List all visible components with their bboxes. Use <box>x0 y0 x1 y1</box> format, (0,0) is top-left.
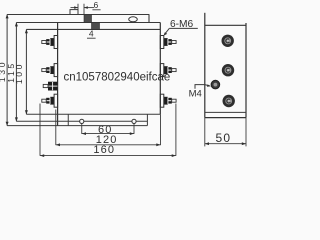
knurled terminal head 1 <box>222 35 234 47</box>
box left edge <box>57 23 59 126</box>
svg-text:50: 50 <box>216 131 232 145</box>
svg-text:4: 4 <box>89 29 94 39</box>
terminal bolt L4 <box>42 94 58 107</box>
bottom flange right end <box>146 114 148 125</box>
box right edge <box>159 23 161 115</box>
terminal bolt L1 <box>42 36 58 49</box>
box top edge (also 100-dim top leg) <box>26 28 160 30</box>
slot detail: extension line left <box>77 4 79 15</box>
knurled terminal head 2 <box>222 64 234 76</box>
dim ext from left pad face down <box>55 110 57 146</box>
dim ext from bolt L4 tip down <box>39 104 41 156</box>
dim ext side view left <box>204 118 206 147</box>
svg-text:M4: M4 <box>189 88 202 99</box>
svg-text:cn1057802940eifcae: cn1057802940eifcae <box>64 72 171 84</box>
dim 115 vertical line <box>15 23 17 122</box>
flange bend line (also 115-dim top leg) <box>16 22 160 24</box>
dim 50 line <box>205 143 246 145</box>
dim ext from slot hole left down <box>81 124 83 134</box>
svg-text:160: 160 <box>93 144 115 156</box>
terminal bolt R3 <box>160 94 176 107</box>
dim 120 line <box>56 144 161 146</box>
dim 160 line <box>40 155 176 157</box>
arrows of 100 <box>25 29 28 114</box>
terminal bolt R2 <box>160 64 176 77</box>
dim ext from bolt R3 tip down <box>175 104 177 156</box>
dim ext side view right <box>245 118 247 147</box>
svg-text:100: 100 <box>14 62 24 84</box>
ground stud head M4 <box>211 80 219 88</box>
flange right step <box>148 14 150 22</box>
box bottom edge (also 100-dim bottom leg) <box>26 113 160 115</box>
slot detail: hatched block lower <box>92 23 100 30</box>
side view left edge with flange lip <box>204 13 206 118</box>
leader arrow from 6-M6 to bolt R1 <box>165 28 170 34</box>
svg-text:6: 6 <box>94 0 99 10</box>
side view bottom edge <box>205 117 246 119</box>
terminal bolt L2 <box>42 64 58 77</box>
leader from M4 to stud <box>195 85 210 89</box>
slot detail: extension line right <box>83 4 85 15</box>
flange top edge line (also 130-dim top leg) <box>7 14 149 16</box>
dim ext from box right edge down <box>160 114 162 145</box>
slot detail: tab above flange <box>70 10 78 15</box>
ground stud M4 left <box>43 82 57 91</box>
arrows of 130 <box>6 14 9 126</box>
dim 130 vertical line <box>6 15 8 126</box>
knurled terminal head 3 <box>223 95 235 107</box>
oval mounting slot <box>129 17 138 22</box>
slot detail: dim 6 line + arrows <box>71 7 79 9</box>
arrows of 115 <box>15 22 18 121</box>
dim 60 line <box>82 133 134 135</box>
dim ext from slot hole right down <box>133 124 135 134</box>
dim 100 vertical line <box>25 29 27 114</box>
bottom slot hole right <box>132 119 136 123</box>
bottom flange bottom edge (also 130-dim bottom leg) <box>7 125 147 127</box>
bottom slot hole left <box>80 119 84 123</box>
side view top edge <box>205 24 246 26</box>
bottom flange slot line (also 115-dim bottom leg) <box>16 120 147 122</box>
slot detail: hatched block upper <box>84 15 92 23</box>
bottom flange left end <box>67 114 69 125</box>
side view inner bottom line <box>205 111 246 113</box>
side view right edge with stub <box>245 23 247 118</box>
terminal bolt R1 <box>160 36 176 49</box>
